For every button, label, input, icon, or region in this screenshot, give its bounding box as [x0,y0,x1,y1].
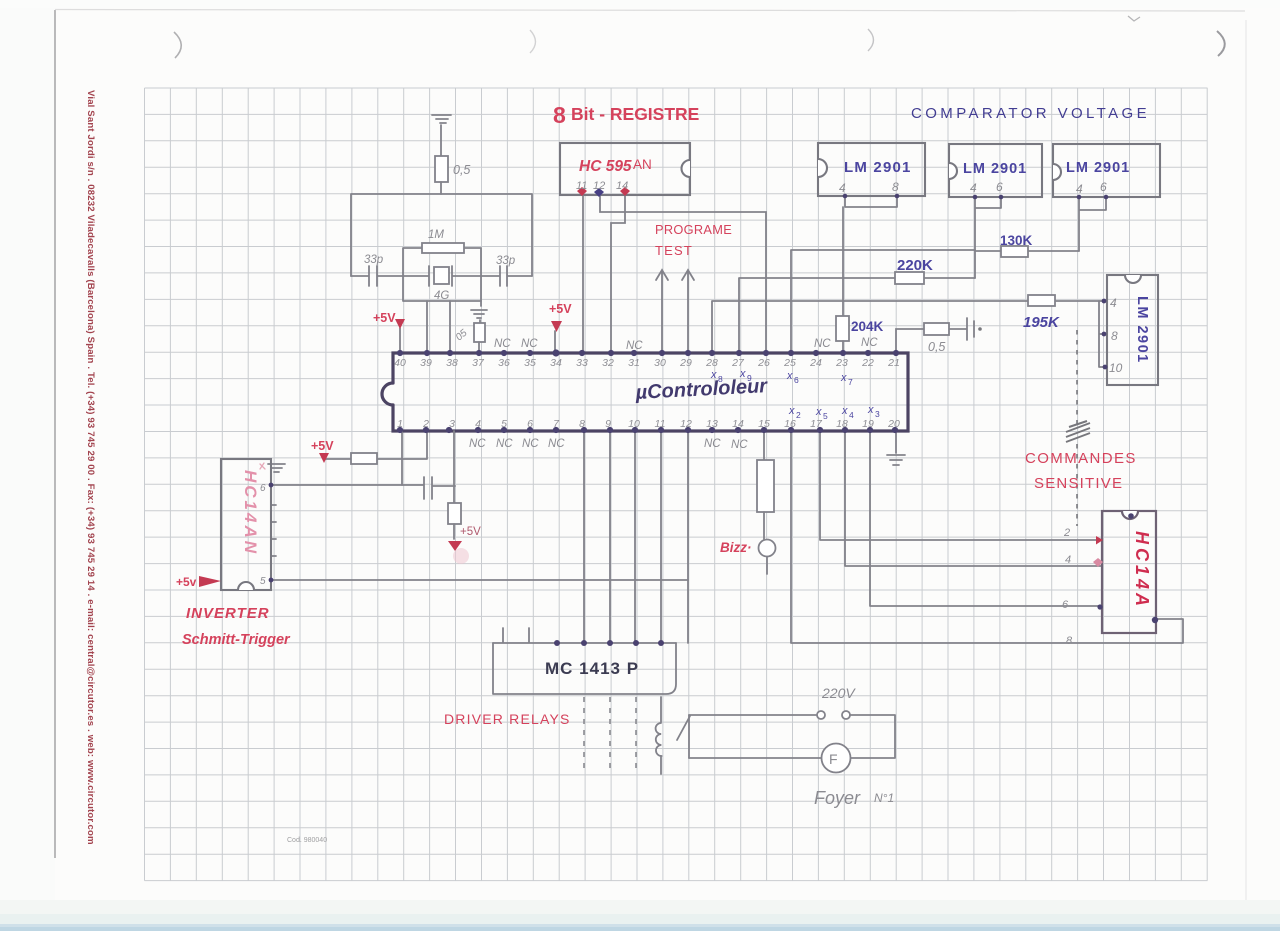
svg-text:31: 31 [628,357,640,369]
svg-text:28: 28 [705,357,718,369]
svg-text:F: F [829,751,838,767]
svg-text:NC: NC [548,438,565,450]
svg-text:+5V: +5V [311,439,334,453]
svg-text:MC 1413 P: MC 1413 P [545,659,639,678]
svg-text:30: 30 [654,357,666,369]
svg-text:33: 33 [576,357,588,369]
svg-text:5: 5 [823,411,828,421]
svg-text:8: 8 [1066,635,1073,647]
svg-text:5: 5 [501,418,507,430]
svg-text:NC: NC [704,438,721,450]
svg-text:x: x [841,405,848,417]
svg-text:15: 15 [758,418,770,430]
svg-text:AN: AN [633,157,652,172]
svg-text:24: 24 [809,357,822,369]
svg-text:HC14AN: HC14AN [241,470,260,556]
svg-text:14: 14 [732,418,744,430]
svg-text:PROGRAME: PROGRAME [655,222,732,237]
svg-text:x: x [840,372,847,384]
svg-text:LM 2901: LM 2901 [1066,160,1130,176]
svg-text:8: 8 [579,418,585,430]
svg-text:36: 36 [498,357,510,369]
svg-text:19: 19 [862,418,874,430]
svg-text:14: 14 [616,180,628,192]
svg-text:13: 13 [706,418,718,430]
svg-text:33p: 33p [364,254,384,266]
svg-text:SENSITIVE: SENSITIVE [1034,475,1123,492]
svg-text:4: 4 [970,181,977,195]
svg-text:7: 7 [848,377,853,387]
svg-text:3: 3 [875,409,880,419]
svg-text:220K: 220K [897,257,933,274]
svg-text:COMPARATOR VOLTAGE: COMPARATOR VOLTAGE [911,105,1150,122]
svg-text:Bizz·: Bizz· [720,540,752,555]
svg-text:10: 10 [1109,361,1123,375]
svg-text:Cod. 980040: Cod. 980040 [287,837,327,844]
svg-text:x: x [788,405,795,417]
svg-text:6: 6 [794,375,799,385]
svg-text:NC: NC [522,438,539,450]
svg-text:COMMANDES: COMMANDES [1025,450,1137,467]
svg-text:+5V: +5V [373,311,396,325]
svg-text:4: 4 [1076,182,1083,196]
svg-text:2: 2 [422,418,429,430]
svg-text:6: 6 [1100,180,1107,194]
svg-text:1: 1 [397,418,403,430]
svg-text:NC: NC [469,438,486,450]
svg-text:6: 6 [527,418,533,430]
svg-text:TEST: TEST [655,243,693,258]
svg-text:21: 21 [887,357,900,369]
svg-text:4: 4 [1110,296,1117,310]
svg-text:22: 22 [861,357,874,369]
svg-text:4: 4 [839,181,846,195]
svg-text:195K: 195K [1023,314,1060,331]
svg-text:DRIVER RELAYS: DRIVER RELAYS [444,711,571,727]
svg-text:x: x [867,404,874,416]
svg-text:x: x [786,370,793,382]
svg-text:18: 18 [836,418,848,430]
svg-text:NC: NC [496,438,513,450]
svg-text:11: 11 [576,180,587,192]
svg-text:NC: NC [521,338,538,350]
svg-text:29: 29 [679,357,692,369]
svg-text:Foyer: Foyer [814,788,861,808]
svg-text:16: 16 [784,418,796,430]
svg-text:+5V: +5V [460,526,481,538]
svg-text:4: 4 [475,418,481,430]
svg-text:NC: NC [861,337,878,349]
svg-text:HC14A: HC14A [1132,531,1152,610]
svg-text:Vial Sant Jordi s/n . 08232 Vi: Vial Sant Jordi s/n . 08232 Viladecavall… [85,90,96,845]
svg-text:8: 8 [553,102,566,128]
svg-text:39: 39 [420,357,432,369]
svg-text:HC 595: HC 595 [579,158,632,175]
svg-text:2: 2 [796,410,801,420]
svg-text:NC: NC [814,338,831,350]
svg-text:3: 3 [449,418,455,430]
svg-text:LM 2901: LM 2901 [963,161,1027,177]
svg-text:4: 4 [1065,554,1071,566]
svg-text:25: 25 [783,357,796,369]
svg-text:204K: 204K [851,319,884,334]
svg-text:33p: 33p [496,255,516,267]
svg-text:37: 37 [472,357,485,369]
svg-text:LM 2901: LM 2901 [844,159,912,176]
svg-text:20: 20 [887,418,900,430]
svg-text:23: 23 [835,357,848,369]
svg-text:1M: 1M [428,229,444,241]
svg-text:8: 8 [892,180,899,194]
svg-text:6: 6 [260,483,266,494]
svg-text:INVERTER: INVERTER [186,605,270,622]
svg-text:10: 10 [628,418,640,430]
svg-text:+5v: +5v [176,575,197,589]
svg-text:17: 17 [810,418,823,430]
svg-text:27: 27 [731,357,745,369]
svg-text:4: 4 [849,410,854,420]
svg-text:12: 12 [593,180,605,192]
svg-text:40: 40 [394,357,406,369]
svg-text:35: 35 [524,357,536,369]
svg-text:26: 26 [757,357,770,369]
svg-text:12: 12 [680,418,692,430]
svg-text:8: 8 [1111,329,1118,343]
svg-text:2: 2 [1063,527,1070,539]
svg-text:220V: 220V [821,685,856,701]
svg-text:4G: 4G [434,290,449,302]
svg-text:34: 34 [550,357,562,369]
svg-text:9: 9 [605,418,611,430]
svg-text:NC: NC [494,338,511,350]
svg-text:32: 32 [602,357,614,369]
svg-text:+5V: +5V [549,302,572,316]
svg-text:NC: NC [626,340,643,352]
svg-text:Schmitt-Trigger: Schmitt-Trigger [182,632,291,648]
svg-text:38: 38 [446,357,458,369]
svg-text:11: 11 [655,418,666,430]
svg-text:0,5: 0,5 [453,163,470,177]
svg-text:6: 6 [996,180,1003,194]
svg-text:x: x [815,406,822,418]
svg-text:6: 6 [1062,599,1069,611]
svg-text:N°1: N°1 [874,791,894,805]
svg-text:130K: 130K [1000,233,1033,248]
svg-text:LM 2901: LM 2901 [1134,296,1150,364]
svg-text:5: 5 [260,576,266,587]
svg-text:NC: NC [731,439,748,451]
svg-text:0,5: 0,5 [928,340,945,354]
svg-text:Bit - REGISTRE: Bit - REGISTRE [571,104,699,124]
